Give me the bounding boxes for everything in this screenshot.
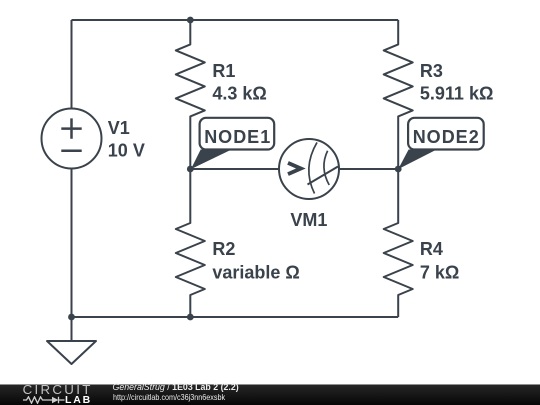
svg-text:4.3 kΩ: 4.3 kΩ bbox=[212, 84, 266, 104]
svg-text:10 V: 10 V bbox=[108, 141, 145, 161]
svg-text:R4: R4 bbox=[420, 239, 443, 259]
svg-text:NODE1: NODE1 bbox=[204, 127, 271, 147]
svg-text:VM1: VM1 bbox=[290, 210, 327, 230]
svg-text:V1: V1 bbox=[108, 118, 130, 138]
svg-text:7 kΩ: 7 kΩ bbox=[420, 262, 459, 282]
svg-text:R2: R2 bbox=[212, 239, 235, 259]
svg-text:R1: R1 bbox=[212, 61, 235, 81]
svg-text:variable Ω: variable Ω bbox=[212, 262, 299, 282]
svg-text:NODE2: NODE2 bbox=[413, 127, 480, 147]
svg-text:R3: R3 bbox=[420, 61, 443, 81]
svg-text:5.911 kΩ: 5.911 kΩ bbox=[420, 84, 494, 104]
